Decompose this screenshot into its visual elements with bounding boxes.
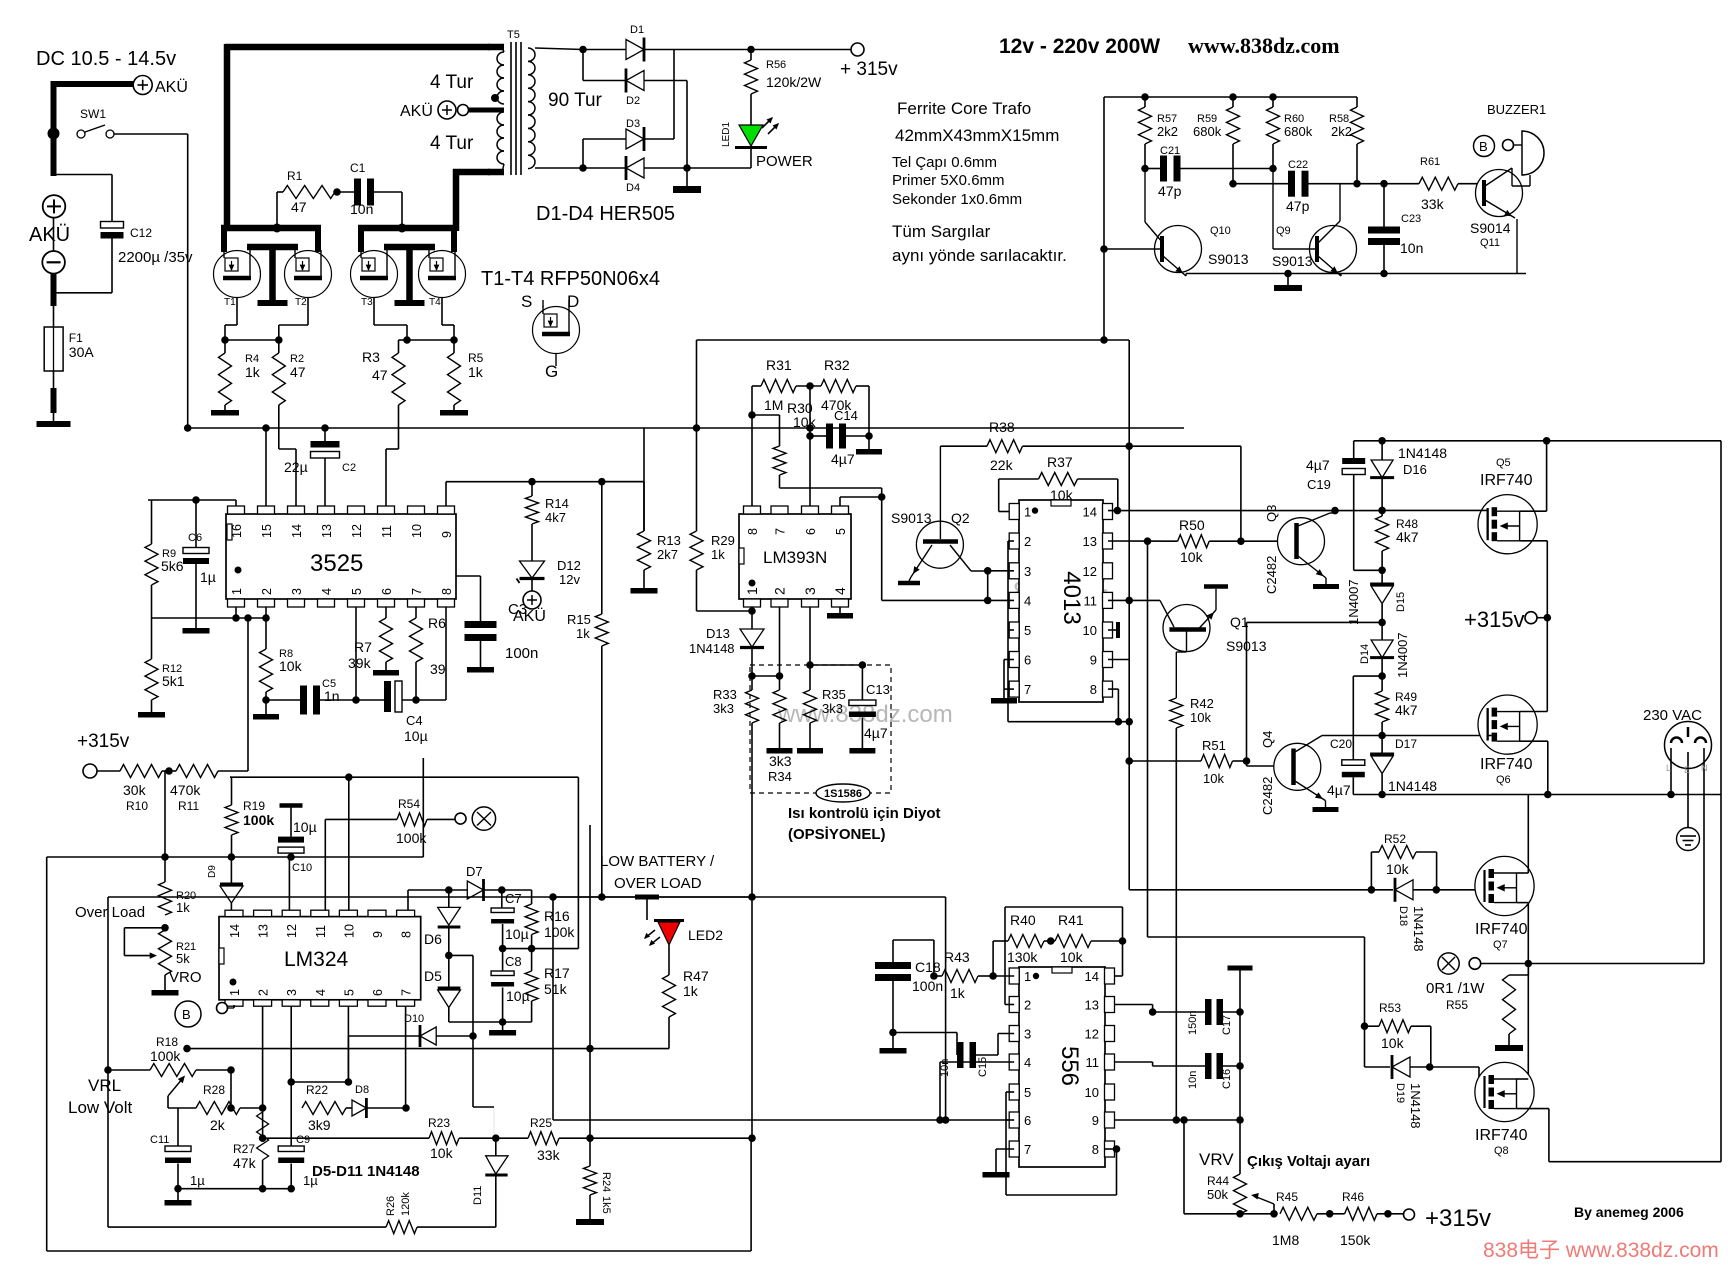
svg-text:Çıkış Voltajı ayarı: Çıkış Voltajı ayarı [1247,1153,1370,1170]
resistor R33 [751,676,753,690]
resistor R57 [1139,107,1152,144]
svg-text:8: 8 [746,528,760,535]
terminal R54 out [427,818,455,820]
wire left spine [107,897,109,1227]
ground C14 [868,436,870,449]
svg-text:10k: 10k [1386,861,1410,877]
resistor R28 [168,1107,196,1109]
wire Q2 base to R38 [940,445,987,447]
svg-text:C8: C8 [505,954,522,969]
svg-text:R6: R6 [428,615,446,631]
svg-text:1k: 1k [950,985,966,1001]
diode D18 [1371,889,1393,891]
resistor R29 [696,428,698,531]
svg-text:39k: 39k [348,655,372,671]
svg-text:4k7: 4k7 [545,510,566,525]
svg-text:C16: C16 [1221,1069,1233,1089]
capacitor C5 [266,699,300,701]
wire pin5 row [291,1081,348,1083]
resistor R8 [265,607,267,649]
svg-text:7: 7 [400,989,414,996]
svg-text:D11: D11 [472,1186,484,1205]
wire C20 down [1352,777,1354,794]
svg-text:1: 1 [1024,969,1031,984]
wire q2col pin3 [988,570,1014,572]
transistor Q6 IRF740 [1478,695,1537,754]
svg-text:C21: C21 [1160,145,1180,157]
svg-text:R27: R27 [233,1142,255,1156]
wire D5 bottom [448,1008,450,1023]
capacitor C10 [280,803,303,808]
wire C5 right [320,699,356,701]
node rail sw [184,424,192,432]
wire D17 bottom [1381,774,1383,795]
resistor R22 body [302,1102,346,1115]
capacitor C11 body [177,1108,179,1146]
svg-text:150k: 150k [1340,1232,1371,1248]
svg-text:12: 12 [285,924,299,938]
svg-text:L: L [1666,763,1671,773]
transistor T1 MOSFET [214,251,261,298]
svg-text:120k: 120k [400,1192,412,1216]
svg-text:R44: R44 [1207,1174,1229,1188]
svg-text:11: 11 [1086,1055,1100,1070]
wire V1 vertical [1128,340,1130,890]
transistor Q4 [1274,743,1321,790]
svg-text:4: 4 [1024,593,1031,608]
svg-text:C18: C18 [915,959,941,975]
wire R32 right [856,385,869,387]
resistor R54 [325,818,397,820]
wire C20 link [1353,675,1382,677]
svg-text:10k: 10k [1381,1035,1405,1051]
wire thick T2 stub [315,228,321,252]
wire R15 down [601,646,603,897]
wire pin7 gnd [996,1148,1014,1150]
svg-text:R47: R47 [683,968,709,984]
capacitor C12 [101,222,124,229]
ground R55 [1495,1045,1523,1051]
ground T3T4 source [395,300,425,306]
capacitor C9 [278,1146,304,1152]
svg-text:R24: R24 [600,1172,612,1192]
svg-text:1: 1 [230,588,244,595]
resistor R58 [1351,107,1364,144]
wire R51 right [1233,760,1247,762]
diode D19 [1364,1026,1366,1067]
terminal +315v left [83,764,97,778]
terminal X node [1438,953,1459,974]
node C23 top [1380,270,1388,278]
wire outer box bottom [47,1250,751,1252]
wire C18 to C15 [893,1032,957,1034]
svg-text:D1: D1 [630,24,644,36]
svg-text:556: 556 [1056,1046,1083,1086]
svg-text:D2: D2 [626,95,640,107]
capacitor C18 [875,962,911,969]
svg-text:C10: C10 [292,862,312,874]
svg-text:By anemeg 2006: By anemeg 2006 [1574,1204,1684,1220]
ic U2 3525 [226,514,456,599]
wire pin5 down [355,607,357,700]
wire y340 to LM393 col [697,339,1105,341]
svg-text:6: 6 [804,528,818,535]
svg-text:7: 7 [410,588,424,595]
transistor T3 MOSFET [351,251,398,298]
svg-text:Q4: Q4 [1260,731,1275,748]
wire primary top pin [488,44,504,51]
svg-text:4µ7: 4µ7 [1327,782,1351,798]
wire sense row [500,481,644,483]
svg-text:2: 2 [1024,534,1031,549]
wire pin13 row [1108,540,1178,542]
svg-text:D7: D7 [466,864,483,879]
resistor R50 [1178,535,1210,548]
svg-text:12v: 12v [559,572,580,587]
svg-text:VRV: VRV [1199,1150,1234,1169]
svg-text:www.838dz.com: www.838dz.com [1188,33,1340,58]
wire R47 bottom row [668,1040,670,1049]
wire pin6 col [809,386,811,506]
svg-text:D15: D15 [1395,592,1407,612]
svg-text:13: 13 [1085,998,1099,1013]
svg-text:Sekonder 1x0.6mm: Sekonder 1x0.6mm [892,191,1022,208]
ic U5 LM324 [219,917,421,1000]
wire pin12 drop [288,857,290,910]
svg-text:14: 14 [1085,969,1099,984]
ground 4013 [991,698,1017,704]
svg-text:9: 9 [440,531,454,538]
wire R18 node down [230,1070,232,1108]
svg-text:47: 47 [291,199,307,215]
svg-text:10k: 10k [430,1145,454,1161]
svg-text:C2: C2 [342,462,356,474]
svg-text:(OPSİYONEL): (OPSİYONEL) [788,826,886,843]
wire pin7 col [405,1006,407,1108]
svg-text:C19: C19 [1307,477,1331,492]
svg-text:R29: R29 [711,533,735,548]
svg-text:4: 4 [314,989,328,996]
wire buzzer left vertical [1103,97,1105,340]
svg-text:Tel Çapı 0.6mm: Tel Çapı 0.6mm [892,154,997,171]
node plus rail top [747,46,755,54]
wire thick T3T4 source tee [384,244,435,251]
svg-text:C22: C22 [1288,159,1308,171]
wire T3 gate down [373,298,375,326]
wire center tap [468,108,504,113]
wire gate row Q6 [1322,735,1492,737]
wire sense row left [446,481,500,483]
svg-text:LED2: LED2 [688,927,723,943]
svg-text:1M8: 1M8 [1272,1232,1299,1248]
svg-text:VRO: VRO [169,969,202,986]
svg-text:D5-D11 1N4148: D5-D11 1N4148 [312,1163,420,1180]
svg-text:Q11: Q11 [1480,237,1500,249]
resistor R49 [1381,676,1383,691]
ground C11 [174,1185,182,1193]
wire R2 to pin14 [278,405,280,449]
svg-text:R37: R37 [1047,454,1073,470]
svg-text:VRL: VRL [88,1076,121,1095]
svg-text:S9014: S9014 [1470,220,1511,236]
wire R37 left to pin1 [999,478,1039,480]
wire SW1 down to rail [187,134,189,428]
ground 556 pin7 [983,1172,1010,1178]
svg-text:C7: C7 [505,891,522,906]
diode D7 [449,889,468,891]
svg-text:Q8: Q8 [1494,1145,1509,1157]
svg-text:S: S [521,292,532,311]
svg-text:R13: R13 [657,533,681,548]
svg-text:R51: R51 [1202,738,1226,753]
svg-text:T4: T4 [429,297,441,308]
terminal X small [472,807,495,830]
wire pin13 row [1115,1004,1153,1006]
svg-text:2k2: 2k2 [1157,124,1178,139]
transistor Q8 IRF740 [1475,1062,1534,1121]
wire R11 to pin net [218,770,248,772]
diode D9 [230,857,232,884]
wire D10 right [436,1035,473,1037]
svg-text:R5: R5 [468,351,484,365]
svg-text:4µ7: 4µ7 [864,725,888,741]
resistor R38 [987,440,1023,453]
node rail C2 [321,424,329,432]
capacitor C6 [195,500,197,548]
svg-text:S9013: S9013 [1208,251,1249,267]
wire outlet E [1687,752,1689,827]
ground R4 [211,410,239,416]
resistor R23 [429,1132,459,1145]
wire rail stub up [422,758,424,857]
svg-text:C20: C20 [1330,737,1352,751]
svg-text:12v - 220v 200W: 12v - 220v 200W [999,35,1160,58]
svg-text:R35: R35 [822,687,846,702]
svg-text:C12: C12 [130,226,152,240]
svg-text:1N4007: 1N4007 [1395,632,1410,678]
diode D11 [495,1138,497,1156]
resistor R32 [796,385,821,387]
wire rail up to y340 [696,340,698,428]
wire R47 row left [187,1048,590,1050]
wire X col down [1527,964,1529,1081]
svg-text:1S1586: 1S1586 [824,788,862,800]
svg-text:1k: 1k [683,983,699,999]
svg-text:T3: T3 [361,297,373,308]
node rail junction b [398,224,407,233]
diode D10 [348,1035,420,1037]
svg-text:9: 9 [1092,1113,1099,1128]
wire thick primary top [225,44,490,51]
wire R29 to pin1 [696,570,698,611]
svg-text:680k: 680k [1193,124,1222,139]
svg-text:+315v: +315v [1425,1205,1491,1232]
resistor R43 [934,975,942,977]
wire Q8 source loop [1517,1108,1549,1110]
capacitor C22 [1233,183,1288,185]
svg-text:1n: 1n [324,688,340,704]
svg-text:4: 4 [320,588,334,595]
wire C21 to Q9 base col [1181,168,1274,170]
wire pin14 row long [1108,510,1382,512]
wire rail to R19 [230,776,232,778]
wire C12 bottom [111,239,113,293]
wire D2 to ground rail [644,80,687,82]
wire pin8 up [751,386,753,506]
wire sec top to D2 [582,50,584,81]
wire main 12v rail [188,427,1184,429]
svg-text:6: 6 [380,588,394,595]
fuse F1 [44,327,63,371]
svg-text:POWER: POWER [756,153,813,170]
svg-text:1µ: 1µ [200,569,216,585]
node T1T2 gate tie [225,339,279,341]
svg-text:100n: 100n [505,645,538,662]
svg-text:100k: 100k [544,924,575,940]
wire R27 bottom [262,1160,264,1189]
resistor R9 [151,500,153,544]
svg-text:1: 1 [228,989,242,996]
resistor R34 [773,690,786,723]
svg-text:4: 4 [832,587,848,595]
wire pin2 down [779,607,781,690]
svg-text:1k: 1k [576,626,590,641]
svg-text:3k3: 3k3 [822,701,843,716]
svg-text:1N4148: 1N4148 [1388,778,1437,794]
svg-text:10: 10 [410,524,424,538]
wire outlet L [1670,748,1672,795]
transistor Q10 [1155,226,1202,273]
wire to 315v terminal [751,49,851,51]
svg-text:12: 12 [350,524,364,538]
node R59 top [1229,93,1237,101]
svg-text:D5: D5 [424,968,442,984]
node C11 top [177,1107,179,1109]
svg-text:D12: D12 [557,558,581,573]
svg-text:E: E [1684,765,1690,775]
svg-text:5k1: 5k1 [162,673,185,689]
resistor R61 [1384,183,1419,185]
led LED2 [658,922,680,945]
svg-text:7: 7 [1024,1142,1031,1157]
svg-text:0R1 /1W: 0R1 /1W [1426,980,1485,997]
wire buzzer feed down [1104,339,1129,341]
resistor R18 [108,1069,150,1071]
svg-text:3k3: 3k3 [769,753,792,769]
node C8 top [502,924,504,949]
ground C6 [183,628,210,634]
svg-text:LM393N: LM393N [763,548,827,567]
svg-text:8: 8 [1090,682,1097,697]
ground R13 [643,570,645,588]
node R18 left [104,1066,112,1074]
svg-text:AKÜ: AKÜ [155,78,188,96]
svg-text:R55: R55 [1446,998,1468,1012]
node R24 top [559,1137,590,1139]
resistor R20 [164,857,166,882]
resistor R56 [745,60,758,94]
svg-text:150n: 150n [1187,1011,1199,1035]
svg-text:C1: C1 [350,161,366,175]
wire R13 top [602,481,644,483]
svg-text:+315v: +315v [1464,607,1525,632]
svg-text:51k: 51k [544,981,568,997]
resistor R30 [779,415,781,446]
svg-text:42mmX43mmX15mm: 42mmX43mmX15mm [895,126,1059,145]
svg-text:3k3: 3k3 [713,701,734,716]
svg-text:Over Load: Over Load [75,904,145,921]
svg-text:5: 5 [342,989,356,996]
wire R3 to pin11 [398,405,400,449]
node rail pin15 [262,424,270,432]
resistor R6 [415,607,417,618]
svg-text:R10: R10 [126,799,148,813]
svg-text:R61: R61 [1420,156,1440,168]
svg-text:3: 3 [285,989,299,996]
wire R41 to pin14 [1122,941,1124,976]
node +315 tap [1537,617,1547,619]
wire crossover to Q3 col [1129,445,1241,447]
wire R30 bottom run [779,475,781,488]
dashed box optional diode [750,665,891,793]
svg-text:39: 39 [430,661,446,677]
wire Q6 source [1520,740,1548,742]
svg-text:LED1: LED1 [721,122,732,147]
wire D9 to pin14 [230,903,232,910]
svg-text:R31: R31 [766,357,792,373]
wire rail to pin15 [265,428,267,506]
label 1S1586 [816,784,870,802]
svg-text:3k9: 3k9 [308,1117,331,1133]
wire R43 row [993,975,1014,977]
svg-text:Q7: Q7 [1493,939,1508,951]
ground Q4 emitter [1313,807,1339,812]
svg-text:9: 9 [371,931,385,938]
wire buzzer bottom rail [1186,273,1526,275]
capacitor C8 [502,949,504,971]
svg-text:33k: 33k [1421,196,1445,212]
svg-text:D6: D6 [424,931,442,947]
svg-text:Q6: Q6 [1496,774,1511,786]
terminal +315v mid [1525,612,1537,624]
ground R5 [440,410,468,416]
svg-text:R43: R43 [944,949,970,965]
wire R33 down [751,723,753,897]
capacitor C20 [1342,760,1365,766]
wire R50 right [1209,540,1295,542]
svg-text:4µ7: 4µ7 [1306,457,1330,473]
svg-text:C2482: C2482 [1264,556,1279,594]
diode D6 [448,890,450,907]
wire R59 bottom [1232,144,1234,184]
earth ground symbol [1677,828,1700,851]
svg-text:AKÜ: AKÜ [513,607,546,625]
svg-text:R16: R16 [544,908,570,924]
capacitor C3 [456,575,481,577]
wire R44 bottom [1239,1213,1241,1215]
terminal battery minus [42,251,65,274]
lowbatt box right [945,897,947,1120]
transformer T5 [497,29,535,175]
svg-text:10µ: 10µ [506,988,530,1004]
resistor R12 [151,618,153,659]
transistor T4 MOSFET [419,251,466,298]
wire pin4 row [940,1061,1014,1063]
svg-text:10k: 10k [1180,549,1204,565]
wire top rail right [1354,440,1721,442]
ground C8 [502,1022,504,1030]
transistor Q2 [916,521,963,568]
